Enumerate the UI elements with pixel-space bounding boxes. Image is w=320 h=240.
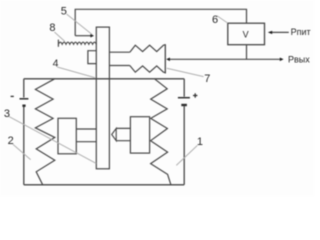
left bellows (2) <box>35 79 54 185</box>
svg-text:1: 1 <box>197 136 203 148</box>
leader line 2 <box>13 144 31 159</box>
left piston rod <box>76 129 96 142</box>
leader line 3 <box>9 116 96 163</box>
zero spring 8 (wavy) <box>58 42 96 44</box>
svg-text:Рпит: Рпит <box>291 27 311 37</box>
svg-text:V: V <box>243 29 249 39</box>
flapper left lug (4) <box>88 51 96 64</box>
plus terminal mark <box>193 93 197 97</box>
output line right arrowhead <box>280 58 284 62</box>
leader line 5 <box>67 14 93 35</box>
output line Рвых <box>169 58 281 60</box>
nozzle cone (3) <box>112 128 117 140</box>
wire converter to output line <box>246 45 248 60</box>
spring anchor post <box>164 44 166 73</box>
range spring bottom <box>130 66 166 73</box>
zero spring (8) anchor tick <box>57 40 59 47</box>
svg-text:7: 7 <box>204 73 210 85</box>
left piston block <box>58 118 76 154</box>
wire arrow at flapper <box>75 35 91 37</box>
right bellows (1) <box>151 79 171 185</box>
converter box U1 (6) <box>228 23 265 45</box>
leader line 6 <box>217 16 228 23</box>
range spring top (7) <box>130 45 166 53</box>
leader line 4 <box>57 67 95 78</box>
svg-text:2: 2 <box>8 135 14 147</box>
svg-text:5: 5 <box>61 5 67 17</box>
flapper rod (vertical bar) <box>96 27 109 169</box>
svg-text:3: 3 <box>4 108 10 120</box>
leader line 8 <box>54 32 64 41</box>
measuring chamber body (outer box) <box>24 79 184 185</box>
output line left arrowhead <box>166 58 170 62</box>
right piston rod <box>116 128 130 140</box>
battery positive cell (right) <box>178 97 190 99</box>
wire from flapper to converter (net 5) <box>75 9 246 35</box>
leader line 7 <box>167 68 204 76</box>
right piston block <box>130 117 149 153</box>
leader line 1 <box>176 145 197 165</box>
svg-text:4: 4 <box>53 58 59 70</box>
feedback rod to range springs <box>109 52 129 65</box>
svg-text:Рвых: Рвых <box>288 54 310 64</box>
supply arrow Рпит <box>271 31 288 33</box>
battery negative cell (left) <box>20 98 29 100</box>
minus terminal mark <box>11 95 14 97</box>
